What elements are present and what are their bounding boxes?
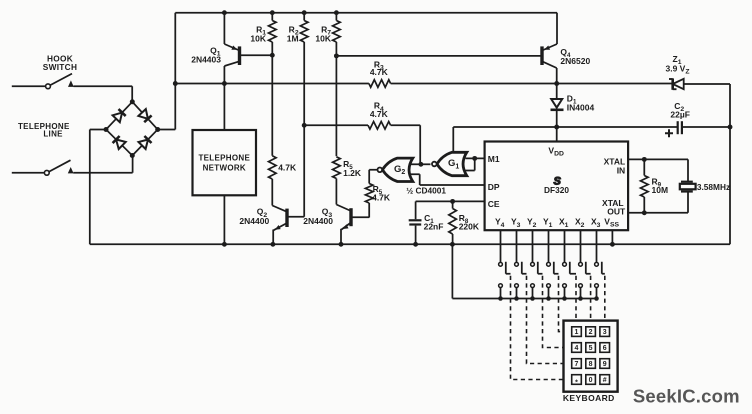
node dot network/bottom rail [222, 242, 227, 247]
capacitor C1 plates [409, 219, 422, 221]
wire keypad common bus [452, 298, 598, 300]
wire left riser from bridge right vertex to top rail [158, 13, 176, 130]
crystal Y1 3.58MHz [681, 181, 693, 183]
svg-text:10K: 10K [315, 34, 331, 44]
node dot R8 / rail [450, 242, 455, 247]
svg-text:4.7K: 4.7K [370, 67, 389, 77]
svg-text:DF320: DF320 [544, 185, 569, 195]
wire VSS to rail [611, 230, 613, 244]
wire G2 output [369, 170, 377, 184]
capacitor C2 plus sign [665, 129, 673, 137]
capacitor C2 plates [677, 121, 679, 134]
node dot C2 / right edge [728, 125, 733, 130]
bridge diode CR3 (bottom-left edge) [116, 140, 126, 150]
wire C2 right to edge [682, 126, 730, 128]
keypad switch SW-X2 (pushbutton contacts) [580, 230, 582, 262]
wire XTAL IN line [628, 159, 688, 181]
transistor Q3 base bar [349, 208, 352, 226]
node dot R7 / Q4 base [334, 53, 339, 58]
svg-text:9: 9 [603, 361, 607, 368]
resistor R9 10M [643, 159, 645, 175]
svg-text:4: 4 [575, 345, 579, 352]
wire Q2 emitter to rail [272, 230, 274, 245]
node dot Q2 emitter / rail [270, 242, 275, 247]
line switch S2 blade [49, 160, 70, 171]
node dot R2 top [302, 10, 307, 15]
wire Q4 collector down to R3 line [556, 68, 558, 84]
keypad switch SW-X1 (pushbutton contacts) [564, 230, 566, 262]
resistor R1 10K [271, 13, 273, 21]
zener Z1 triangle [673, 79, 684, 89]
svg-text:SWITCH: SWITCH [43, 62, 78, 72]
svg-text:8: 8 [589, 361, 593, 368]
svg-text:2N6520: 2N6520 [560, 56, 590, 66]
wire D1 to VDD pin [556, 110, 558, 142]
wire line switch left stub [12, 172, 45, 174]
transistor Q2 base wire [287, 216, 304, 218]
svg-text:NETWORK: NETWORK [203, 163, 246, 172]
node dot Q1 collector / R3 line [222, 81, 227, 86]
transistor Q4 emitter diagonal [542, 44, 557, 51]
wire C1 top lead [415, 201, 417, 219]
node dot R2 / R4 line [302, 123, 307, 128]
svg-text:SeekIC.com: SeekIC.com [633, 385, 740, 406]
telephone network box [193, 130, 257, 195]
bridge diode CR2 (top-right edge) [138, 109, 148, 119]
transistor Q3 collector diagonal [336, 205, 351, 212]
wire R3 line right segment to zener [391, 83, 672, 85]
dashed link SW-X1 to keyboard col 1 [575, 276, 577, 321]
transistor Q3 base wire [351, 216, 369, 218]
svg-text:220K: 220K [459, 221, 480, 231]
wire R7 node down to R5 1.2K [335, 56, 337, 156]
wire top supply rail [175, 12, 557, 14]
wire G1 input stubs to M1 [465, 158, 485, 170]
node dot VSS / rail [610, 242, 615, 247]
zener Z1 cathode bar [671, 78, 674, 89]
wire C1 bottom lead [415, 226, 417, 245]
wire C2 line to G1 top input [453, 127, 556, 155]
node dot Q3 emitter / rail [339, 242, 344, 247]
svg-text:1: 1 [575, 329, 579, 336]
dashed link SW-X2 to keyboard col 2 [590, 276, 592, 321]
resistor R5 1.2K [333, 157, 341, 179]
wire Q3 emitter to rail [340, 229, 342, 245]
svg-text:0: 0 [589, 377, 593, 384]
transistor Q1 emitter arrow (PNP) [231, 46, 237, 50]
svg-text:#: # [603, 377, 607, 384]
node dot Q1 base / R1 [270, 53, 275, 58]
svg-text:10M: 10M [652, 185, 669, 195]
keypad switch SW-Y1 (pushbutton contacts) [548, 230, 550, 262]
svg-text:10K: 10K [250, 34, 266, 44]
transistor Q2 emitter diagonal [274, 223, 287, 230]
keypad switch SW-X3 (pushbutton contacts) [596, 230, 598, 262]
hook switch S1 contact circle [46, 84, 51, 89]
svg-text:TELEPHONE: TELEPHONE [198, 154, 250, 163]
node dot G1 inputs / M1 line [472, 156, 477, 161]
node dot XTAL IN / R9 [642, 157, 647, 162]
wire G2 bottom input to DP [410, 174, 485, 185]
IC U1 DF320 box [485, 142, 628, 231]
dashed link SW-Y1 to keyboard row 1 [559, 276, 564, 332]
transistor Q1 base bar [238, 46, 241, 65]
svg-text:22nF: 22nF [424, 221, 444, 231]
wire Q1 base to R1 [240, 54, 273, 56]
node dot D1 line / C2 line [554, 125, 559, 130]
wire XTAL OUT line [628, 192, 688, 213]
dashed link SW-Y3 to keyboard row 3 [527, 276, 564, 364]
dashed link SW-Y4 to keyboard row 4 [511, 276, 564, 380]
transistor Q4 collector diagonal [542, 61, 557, 68]
svg-text:7: 7 [575, 361, 579, 368]
wire bridge left vertex to left rail [90, 130, 106, 245]
hook switch S1 fixed contact arrow [68, 80, 74, 87]
diode D1 triangle [551, 99, 562, 108]
svg-text:LINE: LINE [43, 129, 63, 138]
bridge diode CR1 (left-top edge) [113, 113, 123, 123]
svg-text:5: 5 [589, 345, 593, 352]
wire R5 to Q3 collector [335, 179, 337, 205]
svg-text:4.7K: 4.7K [372, 193, 391, 203]
svg-text:2N4400: 2N4400 [303, 216, 333, 226]
svg-text:3: 3 [603, 329, 607, 336]
wire keypad common riser [451, 244, 453, 298]
dashed link SW-X3 to keyboard col 3 [604, 276, 606, 321]
wire G2 top input stub [410, 163, 420, 165]
hook switch S1 blade [50, 74, 72, 86]
op-gate G1 body [437, 152, 467, 175]
svg-text:4.7K: 4.7K [370, 109, 389, 119]
svg-text:IN: IN [617, 165, 626, 175]
svg-text:M1: M1 [488, 154, 500, 164]
resistor R2 1M [303, 13, 305, 21]
diode D1 cathode bar [551, 109, 564, 112]
wire CE line [416, 200, 485, 202]
svg-text:2N4400: 2N4400 [239, 216, 269, 226]
transistor Q1 emitter diagonal [224, 44, 239, 51]
wire C2 line left [557, 126, 677, 128]
wire R5 to Q3 base [368, 203, 370, 218]
wire hook switch to bridge top [74, 86, 133, 100]
keyboard keys 1-9 * 0 # [572, 327, 582, 337]
resistor R4 4.7K zigzag [368, 122, 391, 130]
node dot Q1 emitter top rail [222, 10, 227, 15]
node dot CE / R8 [450, 199, 455, 204]
svg-text:22µF: 22µF [670, 110, 690, 120]
node dot R1 top [270, 10, 275, 15]
transistor Q1 collector diagonal [224, 61, 239, 66]
wire Q1 collector down to network box [223, 66, 225, 130]
keyboard outer box [564, 321, 618, 392]
transistor Q2 emitter arrow (NPN) [275, 225, 281, 230]
line switch S2 contact circle [44, 170, 49, 175]
node dot left riser / R3 line [173, 81, 178, 86]
wire R4 to G-junction [391, 125, 421, 164]
svg-text:4.7K: 4.7K [278, 163, 297, 173]
wire Q4 base line [336, 55, 540, 57]
node dot XTAL OUT / R9 [642, 210, 647, 215]
line switch S2 fixed contact arrow [68, 167, 74, 173]
resistor 4.7K (Q2 collector load) [269, 156, 277, 179]
wire bottom rail [90, 243, 730, 245]
wire zener to right edge corner [685, 84, 731, 244]
wire R3 node to D1 [556, 84, 558, 100]
dashed link SW-Y2 to keyboard row 2 [543, 276, 564, 348]
wire 4.7K to Q2 collector [271, 179, 273, 206]
wire G1 output to junction [420, 163, 430, 165]
bridge vertex node dots [130, 99, 135, 104]
transistor Q4 emitter arrow (PNP) [544, 46, 550, 50]
svg-text:2: 2 [589, 329, 593, 336]
wire network box to bottom rail [223, 195, 225, 244]
resistor R3 zigzag [369, 80, 391, 88]
keypad switch SW-Y2 (pushbutton contacts) [532, 230, 534, 262]
svg-text:DP: DP [488, 182, 500, 192]
transistor Q2 base bar [285, 209, 288, 227]
wire R3 line left segment [175, 83, 369, 85]
transistor Q4 base bar [540, 46, 543, 65]
svg-text:1M: 1M [287, 34, 299, 44]
bridge diode CR4 (bottom-right edge) [139, 140, 149, 150]
transistor Q3 emitter arrow (NPN) [343, 224, 349, 229]
wire line switch to bridge bottom [73, 156, 132, 173]
transistor Q2 collector diagonal [272, 206, 287, 212]
svg-text:3.58MHz: 3.58MHz [697, 182, 730, 192]
keypad switch SW-Y4 (pushbutton contacts) [500, 230, 502, 262]
resistor R7 10K [335, 13, 337, 21]
svg-text:*: * [575, 379, 578, 386]
resistor R5 4.7K [365, 184, 373, 204]
transistor Q3 emitter diagonal [342, 223, 352, 230]
svg-text:CE: CE [488, 199, 500, 209]
node dot G1 out / G2 in / R4 [418, 162, 423, 167]
wire hook switch left stub [12, 85, 46, 87]
svg-text:1.2K: 1.2K [343, 168, 362, 178]
wire Q4 emitter from top rail [556, 13, 558, 44]
svg-text:OUT: OUT [607, 206, 626, 216]
resistor R8 220K [452, 201, 454, 208]
wire bridge frame [106, 102, 158, 156]
wire R1 node down [271, 55, 273, 156]
svg-text:KEYBOARD: KEYBOARD [563, 393, 615, 403]
op-gate G2 body [382, 158, 412, 181]
svg-text:2N4403: 2N4403 [191, 54, 221, 64]
keypad switch SW-Y3 (pushbutton contacts) [516, 230, 518, 262]
svg-text:6: 6 [603, 345, 607, 352]
svg-text:½ CD4001: ½ CD4001 [406, 185, 446, 195]
wire R4 line left segment [304, 124, 368, 126]
node dot R7 top [334, 10, 339, 15]
svg-text:IN4004: IN4004 [567, 103, 595, 113]
wire Q1 emitter from rail [223, 13, 225, 44]
node dot C1 / rail [413, 242, 418, 247]
node dot Q4 collector / R3 line [554, 81, 559, 86]
